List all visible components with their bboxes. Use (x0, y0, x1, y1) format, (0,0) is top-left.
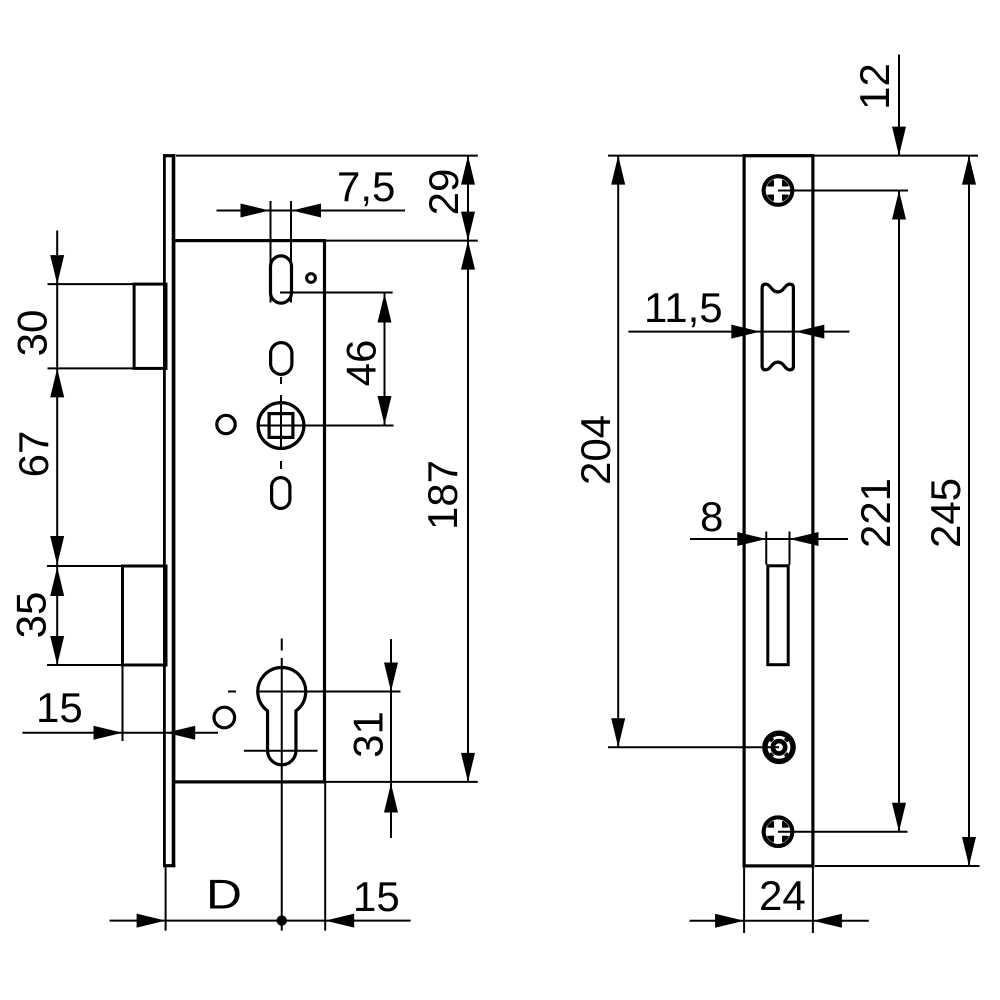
dimension 35 (8, 567, 123, 665)
svg-text:29: 29 (420, 169, 467, 216)
svg-text:31: 31 (345, 711, 392, 758)
dimension 67 (10, 431, 123, 566)
dimension 11,5 (628, 284, 849, 339)
lock case (174, 241, 325, 782)
cylinder centerline horizontal dash (228, 691, 236, 693)
dimension 221 (778, 191, 908, 832)
faceplate front (744, 156, 813, 866)
small hole C (214, 707, 235, 728)
dimension 46 (280, 293, 393, 426)
middle screw (765, 733, 793, 761)
small hole A (307, 274, 316, 283)
svg-text:15: 15 (36, 684, 83, 731)
latch bolt (134, 284, 166, 368)
svg-text:221: 221 (852, 478, 899, 548)
dimension 15 left (22, 667, 218, 742)
oval slot 2 (271, 343, 292, 375)
oval slot top (7,5 slot) (271, 256, 292, 303)
svg-text:11,5: 11,5 (644, 284, 723, 331)
svg-text:46: 46 (338, 340, 385, 387)
cylinder vertical centerline (281, 658, 283, 931)
dimension 187 (325, 241, 478, 782)
svg-text:7,5: 7,5 (337, 163, 395, 210)
svg-text:24: 24 (759, 872, 806, 919)
cylinder centerline horizontal (257, 691, 401, 693)
oval slot 3 (272, 478, 290, 509)
svg-text:15: 15 (353, 873, 400, 920)
cylinder vertical centerline dash (281, 639, 283, 651)
top screw (762, 174, 795, 207)
svg-text:245: 245 (922, 478, 969, 548)
faceplate (163, 154, 166, 867)
cylinder lower center mark (244, 750, 318, 752)
dimension D and 15 bottom (110, 783, 411, 930)
svg-text:204: 204 (572, 415, 619, 485)
svg-text:187: 187 (419, 460, 466, 530)
spindle square hole (269, 414, 293, 438)
dimension 29 (176, 156, 478, 241)
dimension 7,5 (217, 163, 406, 303)
dimension 31 (345, 639, 399, 838)
bottom screw (762, 815, 795, 848)
euro cylinder profile (258, 668, 306, 765)
svg-text:67: 67 (10, 431, 57, 478)
deadbolt slot (768, 566, 788, 665)
centerline dash above spindle (280, 377, 282, 384)
spindle crosshair horizontal (257, 425, 394, 427)
spindle crosshair vertical (280, 395, 282, 450)
roller latch (762, 284, 793, 370)
small hole B (217, 415, 235, 433)
svg-text:D: D (206, 871, 242, 918)
svg-text:30: 30 (9, 310, 56, 357)
svg-text:8: 8 (700, 493, 723, 540)
dead bolt (123, 566, 167, 665)
dimension 30 (9, 231, 135, 666)
centerline dash below spindle (280, 461, 282, 469)
dimension 204 (572, 156, 779, 748)
svg-text:35: 35 (8, 592, 55, 639)
dimension 8 (690, 493, 848, 565)
svg-text:12: 12 (851, 63, 898, 110)
dimension 24 (690, 868, 869, 934)
dimension 12 (608, 55, 978, 156)
spindle follower circle (258, 403, 304, 449)
dimension 245 (815, 156, 980, 866)
